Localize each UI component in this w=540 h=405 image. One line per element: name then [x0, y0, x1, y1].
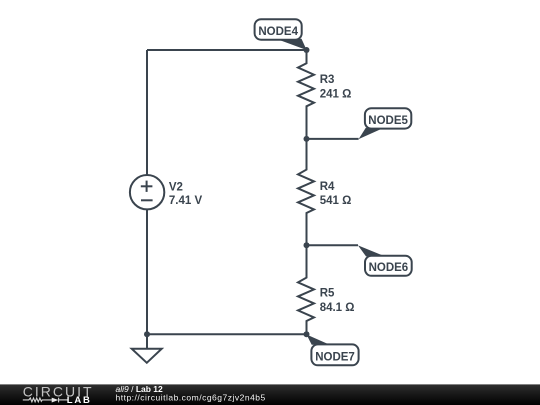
svg-text:84.1 Ω: 84.1 Ω	[320, 302, 355, 314]
resistor R5	[298, 245, 314, 334]
node NODE5 label	[359, 108, 412, 139]
resistor R3	[298, 50, 314, 139]
svg-text:541 Ω: 541 Ω	[320, 195, 352, 207]
logo diode triangle	[52, 398, 59, 403]
svg-text:R5: R5	[320, 288, 335, 300]
junction dot node4	[304, 47, 310, 53]
junction dot node5	[304, 136, 310, 142]
wire top horizontal	[147, 49, 307, 51]
logo resistor-diode line	[23, 398, 68, 403]
wire bottom horizontal	[147, 333, 307, 335]
junction dot ground	[144, 331, 150, 337]
svg-text:R3: R3	[320, 74, 335, 86]
resistor R4	[298, 139, 314, 245]
svg-text:241 Ω: 241 Ω	[320, 89, 352, 101]
junction dot node6	[304, 242, 310, 248]
svg-text:7.41 V: 7.41 V	[169, 195, 203, 207]
svg-text:http://circuitlab.com/cg6g7zjv: http://circuitlab.com/cg6g7zjv2n4b5	[116, 393, 266, 403]
node NODE6 label	[358, 245, 412, 275]
wire NODE5 stub	[307, 138, 359, 140]
svg-text:V2: V2	[169, 182, 183, 194]
node NODE7 label	[307, 335, 359, 366]
wire left vertical upper	[146, 50, 148, 175]
ground	[132, 334, 162, 363]
svg-text:R4: R4	[320, 181, 335, 193]
V2 label	[169, 182, 203, 208]
wire NODE6 stub	[307, 244, 359, 246]
svg-text:LAB: LAB	[67, 395, 92, 405]
R4 label	[320, 181, 352, 207]
wire left vertical lower	[146, 210, 148, 335]
R5 label	[320, 288, 355, 315]
svg-text:NODE4: NODE4	[258, 26, 298, 38]
R3 label	[320, 74, 352, 101]
footer bar	[0, 384, 540, 405]
svg-text:NODE7: NODE7	[315, 351, 355, 363]
svg-text:NODE6: NODE6	[369, 262, 409, 274]
junction dot node7	[304, 331, 310, 337]
node NODE4 label	[255, 19, 307, 50]
voltage source V2	[130, 175, 164, 209]
svg-text:NODE5: NODE5	[368, 115, 408, 127]
